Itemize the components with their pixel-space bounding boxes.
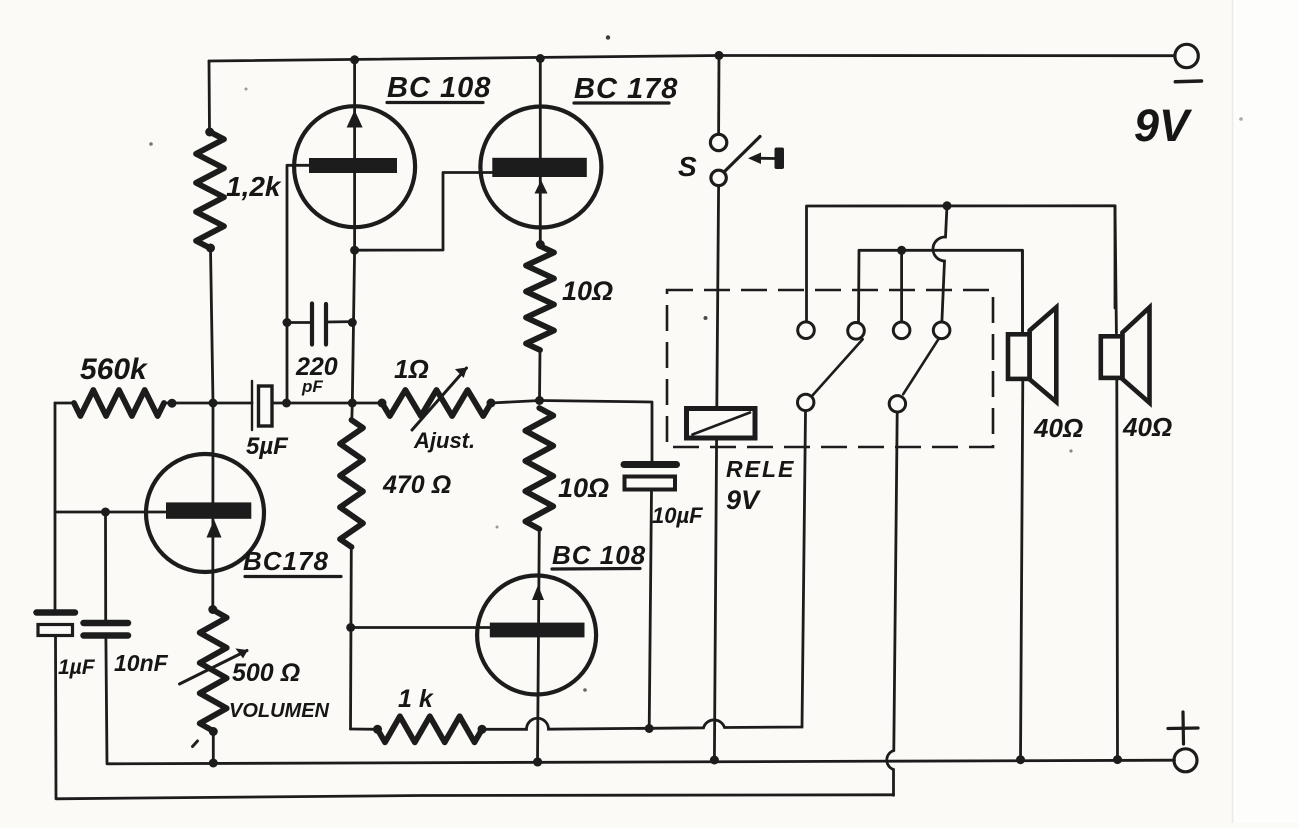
svg-text:BC 178: BC 178 [574,73,678,105]
svg-text:S: S [678,151,697,182]
svg-text:1µF: 1µF [58,656,96,679]
svg-text:10µF: 10µF [652,503,703,528]
svg-text:10Ω: 10Ω [562,276,613,306]
svg-text:1 k: 1 k [398,685,434,713]
svg-text:5µF: 5µF [246,433,289,460]
svg-text:9V: 9V [1134,100,1193,151]
svg-text:1,2k: 1,2k [226,171,282,202]
svg-text:VOLUMEN: VOLUMEN [229,700,330,722]
svg-text:10nF: 10nF [114,650,169,676]
svg-text:9V: 9V [726,485,761,515]
svg-text:500 Ω: 500 Ω [232,659,300,687]
svg-text:560k: 560k [80,353,148,386]
svg-text:40Ω: 40Ω [1122,412,1172,442]
svg-text:pF: pF [301,377,323,396]
svg-text:10Ω: 10Ω [558,473,609,503]
svg-text:Ajust.: Ajust. [413,428,475,453]
svg-text:40Ω: 40Ω [1033,413,1083,443]
svg-text:470 Ω: 470 Ω [382,471,451,499]
svg-text:BC178: BC178 [243,546,329,576]
svg-text:BC 108: BC 108 [387,72,491,104]
svg-text:1Ω: 1Ω [394,354,429,384]
svg-text:BC 108: BC 108 [552,540,646,570]
svg-text:RELE: RELE [726,456,795,482]
